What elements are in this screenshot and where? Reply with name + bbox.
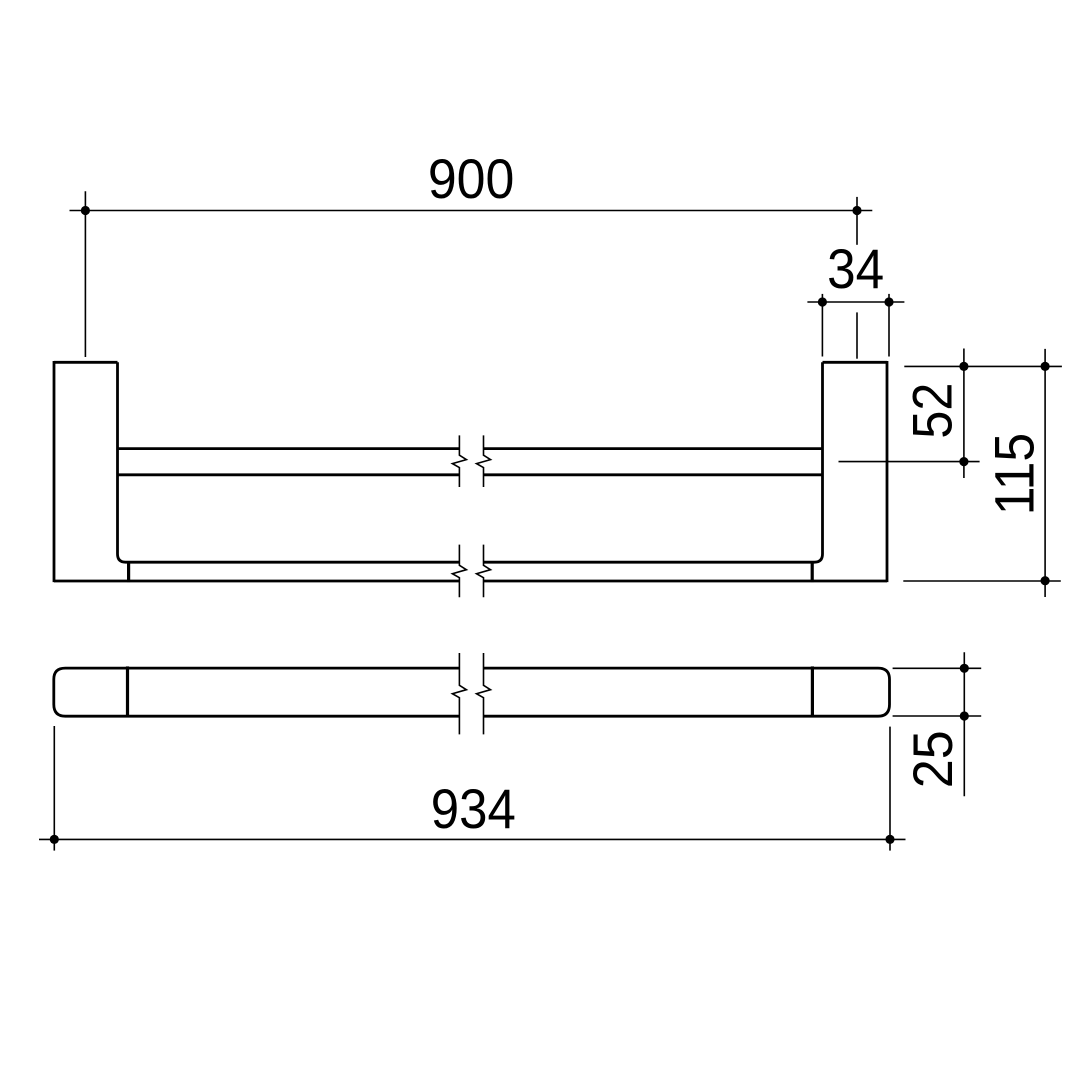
svg-text:34: 34: [827, 238, 884, 300]
svg-text:25: 25: [902, 730, 964, 788]
svg-text:52: 52: [902, 383, 964, 439]
svg-text:115: 115: [983, 433, 1045, 515]
svg-text:900: 900: [428, 148, 515, 210]
svg-text:934: 934: [431, 778, 516, 840]
